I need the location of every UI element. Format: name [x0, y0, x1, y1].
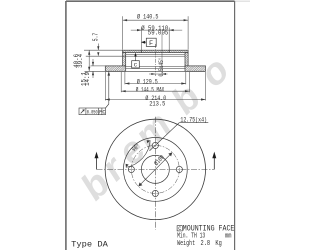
chamfer tiny arrow right	[162, 73, 166, 75]
datum F leader	[142, 41, 147, 43]
frame right border	[234, 1, 236, 250]
dia 144.5 arrows	[121, 90, 126, 92]
ext hat underside left	[86, 55, 126, 57]
svg-text:Ø 144.5 MAX: Ø 144.5 MAX	[136, 86, 165, 95]
dia 59 dim line	[131, 29, 182, 31]
band left hatched	[105, 66, 125, 71]
90 arc arrow left	[126, 164, 129, 168]
section inner chamfer line	[161, 34, 163, 75]
ext band top left	[91, 65, 106, 67]
dia 144.5 ext left	[120, 72, 122, 92]
40.6 arrow down	[88, 67, 90, 72]
dia 144.5 dim line	[121, 90, 189, 92]
svg-text:C: C	[178, 226, 181, 232]
datum F arrow	[141, 41, 145, 44]
dia 144.5 ext right	[189, 72, 191, 92]
bolt hole W	[128, 166, 134, 172]
svg-text:14.9: 14.9	[84, 72, 91, 86]
runout symbol	[81, 110, 85, 114]
horizontal centerline	[97, 168, 215, 170]
band right hatched	[185, 66, 206, 71]
bore edge left in flange	[141, 50, 143, 52]
band mid line 2	[126, 68, 185, 70]
dia 140.5 arrow left	[123, 19, 128, 21]
section centerline	[154, 44, 156, 76]
dia 100 arrow SW	[138, 182, 142, 186]
bolt hole S	[152, 190, 158, 196]
bore circle	[141, 155, 169, 183]
svg-text:59.005: 59.005	[148, 30, 169, 38]
chamfer tiny dim line	[149, 73, 168, 75]
90 arc arrow top	[147, 140, 151, 143]
datum C leader	[135, 56, 137, 61]
hat wall right hatched	[185, 53, 188, 66]
dia 129.5 ext left	[124, 72, 126, 84]
40.6 arrow up	[88, 50, 90, 55]
dia 214 ext left	[104, 72, 106, 101]
feature control frame runout	[79, 108, 106, 115]
datum C ref box bottom	[177, 226, 182, 231]
label underline	[179, 122, 208, 124]
dim 5.7 stem above	[97, 44, 99, 51]
dia 214 arrows	[105, 98, 110, 100]
bolt circle	[131, 145, 179, 193]
cut arrow left stem	[96, 158, 98, 169]
svg-text:39.4: 39.4	[77, 54, 84, 68]
datum C box on section	[132, 61, 140, 68]
label leader through N hole	[150, 123, 180, 151]
cut arrow left head	[95, 152, 99, 159]
dia 140.5 dim line	[123, 19, 189, 21]
svg-text:5.7: 5.7	[92, 33, 100, 41]
dia 140.5 ext line right	[187, 16, 189, 49]
outer circle	[105, 119, 205, 219]
svg-text:mm: mm	[225, 232, 231, 240]
svg-text:Ø 129.5: Ø 129.5	[137, 78, 158, 87]
flange circle	[123, 138, 187, 202]
5.7 arrow down	[97, 46, 99, 50]
watermark brembo	[72, 48, 237, 207]
dim 15.1 stem below	[92, 71, 94, 78]
dia 100 arrow NE	[168, 152, 172, 156]
svg-text:Kg: Kg	[215, 240, 221, 248]
dia 59 arrow left outside	[137, 29, 142, 31]
90 deg arc	[126, 140, 150, 167]
dia 140.5 arrow right	[184, 19, 189, 21]
15.1 arrow up	[92, 71, 94, 75]
hat underside line 1	[126, 53, 185, 55]
datum F box	[146, 38, 156, 46]
fcf leader arrow	[108, 71, 111, 75]
svg-text:0.050: 0.050	[87, 109, 98, 116]
dia 129.5 arrows	[125, 82, 129, 84]
frame left border	[65, 1, 67, 250]
dia 214 ext right	[205, 72, 207, 101]
dia 59 arrow right outside	[169, 29, 174, 31]
svg-text:C: C	[102, 110, 105, 116]
frame top border	[66, 0, 235, 2]
band bottom edge full	[105, 70, 205, 72]
svg-text:213.5: 213.5	[149, 101, 165, 109]
bore edge right in flange	[168, 50, 170, 52]
dim 15.1 stem above	[92, 59, 94, 66]
cut arrow right stem	[213, 158, 215, 169]
hat underside line 2	[126, 55, 185, 57]
svg-text:2.8: 2.8	[201, 240, 211, 248]
fcf leader	[106, 73, 109, 108]
dia 59 ext line right	[168, 28, 170, 51]
svg-text:F: F	[149, 40, 153, 48]
dia 59 ext line left	[141, 28, 143, 51]
15.1 arrow down	[92, 62, 94, 66]
vertical centerline	[154, 117, 156, 230]
dim 40.6 line	[88, 50, 90, 71]
dia 214 dim line	[105, 99, 205, 101]
ext band bottom left	[85, 70, 106, 72]
cut arrow right head	[212, 152, 216, 159]
dia 100 diagonal line	[138, 152, 172, 186]
svg-text:Ø 140.5: Ø 140.5	[137, 12, 159, 21]
svg-text:C: C	[134, 62, 138, 69]
dia 129.5 ext right	[185, 72, 187, 84]
ext hat top left	[84, 49, 123, 51]
5.7 arrow down lower	[97, 52, 99, 56]
frame top border faint right stub	[235, 0, 250, 2]
dia 129.5 dim line	[125, 83, 186, 85]
svg-text:Type DA: Type DA	[71, 240, 108, 249]
bolt hole N	[152, 142, 158, 148]
dia 140.5 ext line left	[122, 16, 124, 49]
datum C arrow	[134, 53, 137, 57]
chamfer tiny arrow left	[151, 73, 155, 75]
hat wall left hatched	[123, 53, 126, 66]
bolt hole E	[176, 166, 182, 172]
hat flange hatched	[123, 50, 189, 52]
svg-text:Weight: Weight	[177, 240, 195, 248]
band mid line 1	[126, 66, 185, 68]
